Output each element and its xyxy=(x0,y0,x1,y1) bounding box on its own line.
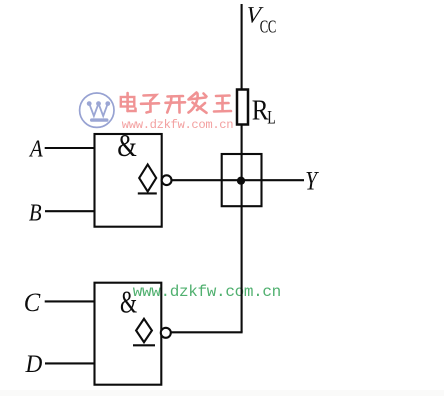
watermark chinese text 电子开发网 (hand-drawn strokes) xyxy=(121,93,231,113)
svg-text:&: & xyxy=(120,285,137,320)
svg-text:www.dzkfw.com.cn: www.dzkfw.com.cn xyxy=(122,118,233,132)
bottom page strip xyxy=(0,390,444,396)
网 (styled like 王) xyxy=(214,96,231,112)
svg-text:L: L xyxy=(267,106,275,127)
node junction dot xyxy=(237,177,245,185)
wire gate U2 output to node xyxy=(171,331,243,333)
发 xyxy=(189,93,207,113)
gate U2 open-collector diamond xyxy=(136,319,152,342)
svg-text:CC: CC xyxy=(260,17,276,37)
gate U1 open-collector diamond xyxy=(139,165,156,192)
gate U1 output bubble xyxy=(162,175,172,185)
wire Vcc vertical main xyxy=(241,4,243,90)
gate U2 diamond under-bar xyxy=(133,344,155,346)
svg-text:&: & xyxy=(117,129,137,163)
watermark logo circle W xyxy=(80,93,114,127)
circuit in black xyxy=(45,4,304,385)
wire input D xyxy=(45,362,95,364)
svg-text:D: D xyxy=(25,350,43,378)
wire output Y horizontal xyxy=(172,179,304,181)
wire input C xyxy=(45,300,95,302)
gate U2 output bubble xyxy=(161,328,171,338)
gate U1 diamond under-bar xyxy=(138,192,157,194)
svg-text:A: A xyxy=(28,135,43,162)
wire input B xyxy=(45,210,95,212)
svg-text:C: C xyxy=(24,288,42,317)
svg-text:www.dzkfw.com.cn: www.dzkfw.com.cn xyxy=(133,283,281,301)
电 xyxy=(121,93,136,111)
gate U2 body xyxy=(95,283,162,385)
wire below resistor down to gate2 output xyxy=(241,124,243,332)
resistor RL body xyxy=(237,90,248,125)
junction box xyxy=(222,154,262,206)
开 xyxy=(166,96,186,113)
子 xyxy=(141,95,159,113)
svg-text:B: B xyxy=(29,199,42,226)
wire input A xyxy=(45,147,95,149)
gate U1 body xyxy=(95,134,162,227)
